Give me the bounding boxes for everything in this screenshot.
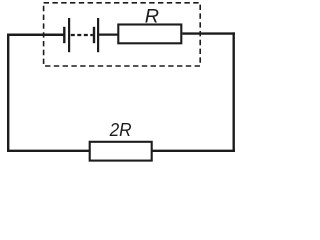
- resistor 2R value label: [109, 119, 132, 140]
- battery cell 2 negative plate (short bar): [93, 27, 95, 43]
- svg-text:2R: 2R: [109, 119, 132, 140]
- battery cell 2 positive plate (tall bar): [97, 18, 99, 52]
- wire left vertical side: [7, 34, 9, 152]
- wire from resistor R to right side: [182, 32, 235, 34]
- battery cell 1 positive plate (tall bar): [68, 18, 70, 52]
- dashed wire between battery cells (omitted cells): [71, 34, 93, 36]
- wire left horizontal from battery to left side: [7, 34, 64, 37]
- resistor R body: [118, 25, 181, 44]
- wire from battery to resistor R: [99, 33, 118, 35]
- resistor R value label: [145, 5, 159, 27]
- battery cell 1 negative plate (short bar): [63, 27, 65, 43]
- battery enclosure (dashed box): [44, 3, 201, 66]
- svg-text:R: R: [145, 5, 159, 27]
- wire right vertical side: [232, 32, 234, 152]
- wire bottom-right horizontal to resistor 2R: [152, 150, 235, 152]
- wire bottom-left horizontal to resistor 2R: [7, 150, 90, 152]
- resistor 2R body: [90, 142, 152, 161]
